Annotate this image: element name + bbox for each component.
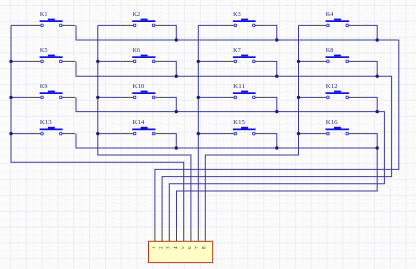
switch K3 (221, 11, 268, 27)
junction COL2 bus / K10 left pin (96, 96, 99, 99)
switch K14 (120, 119, 168, 135)
wire column bus COL2 to connector pin 6 (98, 25, 191, 227)
junction ROW3 bus / K10 drop (175, 110, 178, 113)
switch K2 (120, 11, 168, 27)
switch K8 (314, 47, 362, 63)
wire COL4 stub to K4 left pin (299, 24, 314, 26)
switch K9 (28, 83, 76, 99)
junction COL2 bus / K14 left pin (96, 132, 99, 135)
wire row bus ROW2 to connector pin 2 (76, 61, 392, 227)
wire COL3 stub to K11 left pin (198, 96, 221, 98)
wire row bus ROW1 to connector pin 1 (76, 25, 399, 227)
junction COL4 bus / K8 left pin (297, 60, 300, 63)
wire K15 right pin drop to ROW4 bus (268, 134, 277, 148)
wire COL1 stub to K5 left pin (11, 60, 28, 62)
junction ROW1 bus / K2 drop (175, 38, 178, 41)
junction COL1 bus / K9 left pin (9, 96, 12, 99)
wire K16 right pin drop to ROW4 bus (362, 134, 378, 148)
switch K5 (28, 47, 76, 63)
pin 4 of connector J1 (174, 227, 179, 249)
junction ROW2 bus / K6 drop (175, 75, 178, 78)
svg-text:K8: K8 (326, 47, 334, 54)
junction ROW2 bus / K8 drop (376, 75, 379, 78)
switch K16 (314, 119, 362, 135)
pin 6 of connector J1 (188, 227, 193, 249)
pin 2 of connector J1 (159, 227, 164, 249)
wire COL3 stub to K15 left pin (198, 133, 221, 135)
svg-text:K1: K1 (40, 11, 48, 18)
junction COL2 bus / K6 left pin (96, 60, 99, 63)
svg-text:K11: K11 (233, 83, 245, 90)
switch K12 (314, 83, 362, 99)
wire COL4 stub to K8 left pin (299, 60, 314, 62)
wire column bus COL3 to connector pin 7 (197, 25, 199, 227)
svg-text:K3: K3 (233, 11, 241, 18)
wire COL1 stub to K9 left pin (11, 96, 28, 98)
svg-text:K10: K10 (133, 83, 145, 90)
svg-text:K16: K16 (326, 119, 338, 126)
wire row bus ROW4 to connector pin 4 (76, 134, 377, 227)
junction ROW2 bus / K7 drop (275, 75, 278, 78)
svg-text:K15: K15 (233, 119, 245, 126)
wire column bus COL4 to connector pin 8 (205, 25, 298, 227)
junction ROW1 bus / K4 drop (376, 38, 379, 41)
wire K4 right pin drop to ROW1 bus (362, 25, 378, 40)
wire COL3 stub to K7 left pin (198, 60, 221, 62)
wire column bus COL1 to connector pin 5 (11, 25, 184, 227)
junction ROW3 bus / K12 drop (376, 110, 379, 113)
wire COL4 stub to K12 left pin (299, 96, 314, 98)
svg-text:K4: K4 (326, 11, 334, 18)
wire COL3 stub to K3 left pin (198, 24, 221, 26)
svg-text:K6: K6 (133, 47, 141, 54)
wire K6 right pin drop to ROW2 bus (168, 61, 176, 76)
svg-text:K13: K13 (40, 119, 52, 126)
wire row bus ROW3 to connector pin 3 (76, 97, 384, 227)
wire K11 right pin drop to ROW3 bus (268, 97, 277, 111)
pin 1 of connector J1 (152, 227, 157, 249)
switch K11 (221, 83, 268, 99)
wire COL4 stub to K16 left pin (299, 133, 314, 135)
switch K1 (28, 11, 76, 27)
junction ROW4 bus / K14 drop (175, 146, 178, 149)
junction COL1 bus / K5 left pin (9, 60, 12, 63)
wire K8 right pin drop to ROW2 bus (362, 61, 378, 76)
junction COL1 bus / K13 left pin (9, 132, 12, 135)
junction ROW1 bus / K3 drop (275, 38, 278, 41)
wire K7 right pin drop to ROW2 bus (268, 61, 277, 76)
wire K14 right pin drop to ROW4 bus (168, 134, 176, 148)
svg-text:K2: K2 (133, 11, 141, 18)
junction COL3 bus / K15 left pin (197, 132, 200, 135)
wire COL2 stub to K14 left pin (98, 133, 120, 135)
junction ROW4 bus / K16 drop (376, 146, 379, 149)
switch K13 (28, 119, 76, 135)
junction COL3 bus / K7 left pin (197, 60, 200, 63)
switch K4 (314, 11, 362, 27)
connector J1 (8-pin header) (149, 241, 213, 262)
svg-text:K14: K14 (133, 119, 145, 126)
svg-text:K9: K9 (40, 83, 48, 90)
wire K3 right pin drop to ROW1 bus (268, 25, 277, 40)
wire K2 right pin drop to ROW1 bus (168, 25, 176, 40)
wire K12 right pin drop to ROW3 bus (362, 97, 378, 111)
junction COL4 bus / K12 left pin (297, 96, 300, 99)
switch K7 (221, 47, 268, 63)
wire COL1 stub to K13 left pin (11, 133, 28, 135)
svg-text:K5: K5 (40, 47, 48, 54)
wire K10 right pin drop to ROW3 bus (168, 97, 176, 111)
wire COL2 stub to K6 left pin (98, 60, 120, 62)
junction ROW3 bus / K11 drop (275, 110, 278, 113)
junction ROW4 bus / K15 drop (275, 146, 278, 149)
wire COL2 stub to K10 left pin (98, 96, 120, 98)
junction COL4 bus / K16 left pin (297, 132, 300, 135)
junction COL3 bus / K11 left pin (197, 96, 200, 99)
pin 7 of connector J1 (196, 227, 201, 249)
pin 3 of connector J1 (167, 227, 172, 249)
switch K6 (120, 47, 168, 63)
wire COL1 stub to K1 left pin (11, 24, 28, 26)
pin 5 of connector J1 (181, 227, 186, 249)
pin 8 of connector J1 (203, 227, 208, 249)
svg-text:K7: K7 (233, 47, 241, 54)
wire COL2 stub to K2 left pin (98, 24, 120, 26)
switch K15 (221, 119, 268, 135)
switch K10 (120, 83, 168, 99)
svg-text:K12: K12 (326, 83, 338, 90)
